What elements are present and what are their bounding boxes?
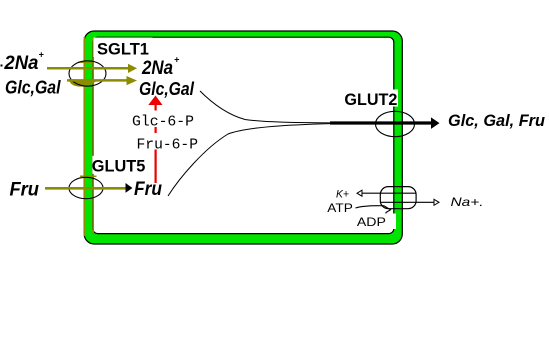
svg-text:GLUT2: GLUT2	[344, 90, 397, 109]
svg-text:2Na: 2Na	[3, 53, 38, 74]
svg-text:Glc,Gal: Glc,Gal	[5, 77, 61, 97]
svg-text:Fru: Fru	[10, 180, 40, 201]
svg-text:Fru-6-P: Fru-6-P	[137, 136, 199, 153]
svg-text:ADP: ADP	[357, 215, 386, 229]
svg-text:Na+.: Na+.	[451, 195, 484, 209]
svg-text:+: +	[174, 55, 180, 65]
svg-text:+: +	[39, 50, 45, 60]
svg-text:2Na: 2Na	[141, 58, 173, 79]
svg-text:Fru: Fru	[134, 179, 162, 200]
svg-text:ATP: ATP	[327, 201, 353, 215]
svg-text:Glc, Gal, Fru: Glc, Gal, Fru	[448, 111, 546, 130]
svg-text:SGLT1: SGLT1	[97, 39, 149, 58]
svg-text:Glc-6-P: Glc-6-P	[132, 114, 194, 131]
svg-text:K+: K+	[336, 188, 350, 200]
svg-text:Glc,Gal: Glc,Gal	[139, 79, 195, 99]
svg-text:GLUT5: GLUT5	[92, 156, 146, 175]
